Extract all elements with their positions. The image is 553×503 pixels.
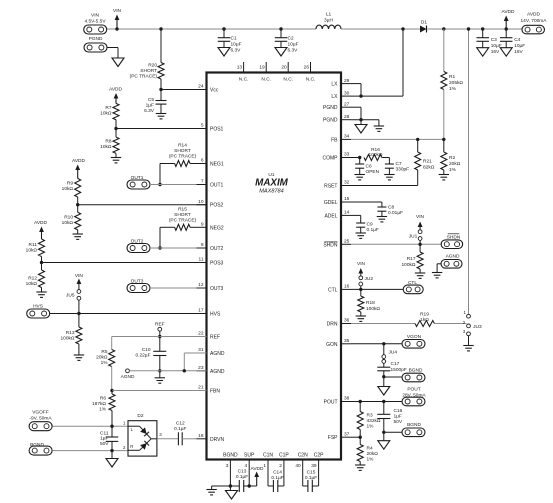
svg-text:100kΩ: 100kΩ (61, 336, 75, 342)
svg-text:R15: R15 (178, 207, 187, 213)
svg-text:VIN: VIN (91, 13, 100, 19)
svg-text:R13: R13 (66, 330, 75, 336)
svg-text:37: 37 (344, 431, 350, 437)
svg-text:FSP: FSP (328, 435, 338, 441)
svg-text:(PC TRACE): (PC TRACE) (130, 74, 158, 80)
svg-text:100kΩ: 100kΩ (402, 262, 416, 268)
svg-text:0.22µF: 0.22µF (135, 352, 150, 358)
svg-text:23: 23 (198, 365, 204, 371)
svg-text:18: 18 (198, 433, 204, 439)
svg-text:40: 40 (295, 463, 301, 469)
svg-text:C9: C9 (367, 222, 373, 228)
svg-text:AVDD: AVDD (502, 9, 516, 15)
svg-text:3: 3 (226, 463, 229, 469)
svg-text:38: 38 (344, 396, 350, 402)
svg-text:JU3: JU3 (473, 324, 482, 330)
svg-text:12: 12 (198, 282, 204, 288)
svg-text:1500pF: 1500pF (391, 367, 407, 373)
svg-text:SHORT: SHORT (140, 68, 157, 74)
svg-text:PGND: PGND (323, 118, 338, 124)
svg-text:100kΩ: 100kΩ (366, 306, 380, 312)
svg-text:C17: C17 (391, 361, 400, 367)
svg-text:6.3V: 6.3V (231, 48, 242, 54)
svg-text:82kΩ: 82kΩ (423, 165, 435, 171)
svg-text:16: 16 (344, 284, 350, 290)
svg-text:C6: C6 (366, 164, 372, 170)
svg-text:Vcc: Vcc (210, 88, 219, 94)
svg-text:R2: R2 (449, 155, 455, 161)
svg-text:1%: 1% (449, 86, 457, 92)
svg-text:3µH: 3µH (324, 18, 333, 24)
svg-text:MAX8784: MAX8784 (259, 189, 284, 195)
svg-text:NEG2: NEG2 (210, 225, 224, 231)
svg-text:2: 2 (279, 463, 282, 469)
svg-text:33: 33 (344, 152, 350, 158)
svg-text:C8: C8 (388, 205, 394, 211)
svg-text:SHORT: SHORT (174, 148, 191, 154)
svg-text:20kΩ: 20kΩ (449, 161, 461, 167)
svg-text:6.3V: 6.3V (288, 48, 299, 54)
svg-text:187kΩ: 187kΩ (92, 401, 106, 407)
svg-text:AVDD: AVDD (72, 158, 86, 164)
svg-text:20kΩ: 20kΩ (367, 451, 379, 457)
svg-text:R7: R7 (105, 105, 111, 111)
svg-text:BGND: BGND (409, 368, 423, 374)
svg-text:VIN: VIN (416, 214, 425, 220)
svg-text:10: 10 (198, 199, 204, 205)
svg-text:OUT2: OUT2 (131, 239, 144, 245)
svg-text:C5: C5 (148, 97, 154, 103)
svg-text:VIN: VIN (75, 273, 84, 279)
svg-text:OUT1: OUT1 (131, 175, 144, 181)
svg-text:LX: LX (331, 82, 338, 88)
svg-text:10kΩ: 10kΩ (62, 186, 74, 192)
svg-text:R5: R5 (101, 349, 107, 355)
svg-text:0.1µF: 0.1µF (174, 426, 186, 432)
svg-text:FB: FB (331, 137, 338, 143)
svg-text:R11: R11 (29, 242, 38, 248)
svg-text:C2P: C2P (314, 453, 324, 459)
svg-text:N.C.: N.C. (261, 77, 271, 83)
svg-text:29: 29 (344, 78, 350, 84)
svg-text:C2: C2 (288, 36, 294, 42)
svg-text:R: R (130, 444, 133, 449)
svg-text:25: 25 (344, 239, 350, 245)
svg-text:50V: 50V (394, 419, 403, 425)
svg-text:28: 28 (344, 114, 350, 120)
svg-text:N.C.: N.C. (239, 77, 249, 83)
svg-text:AVDD: AVDD (527, 12, 541, 18)
svg-text:0.1µF: 0.1µF (305, 475, 317, 481)
svg-text:C12: C12 (176, 421, 185, 427)
svg-text:PGND: PGND (89, 36, 103, 42)
svg-text:9: 9 (201, 222, 204, 228)
svg-text:R14: R14 (178, 143, 187, 149)
svg-text:19: 19 (259, 65, 265, 71)
svg-text:VIN: VIN (357, 261, 366, 267)
svg-text:POS3: POS3 (210, 261, 224, 267)
svg-text:C1P: C1P (279, 453, 289, 459)
svg-text:C10: C10 (142, 347, 151, 353)
svg-text:C11: C11 (100, 430, 109, 436)
svg-text:D1: D1 (421, 20, 427, 26)
svg-text:AVDD: AVDD (34, 220, 48, 226)
svg-text:SHDN: SHDN (447, 235, 461, 241)
svg-text:26: 26 (304, 65, 310, 71)
svg-text:C1N: C1N (263, 453, 273, 459)
svg-text:1%: 1% (101, 360, 109, 366)
svg-text:0.01µF: 0.01µF (388, 210, 403, 216)
svg-text:POUT: POUT (324, 400, 338, 406)
svg-text:C3: C3 (491, 37, 497, 43)
svg-text:BGND: BGND (407, 422, 421, 428)
svg-text:32: 32 (344, 180, 350, 186)
svg-text:1%: 1% (99, 406, 107, 412)
svg-text:10kΩ: 10kΩ (62, 220, 74, 226)
svg-text:OUT1: OUT1 (210, 183, 224, 189)
svg-text:34: 34 (344, 134, 350, 140)
svg-text:10kΩ: 10kΩ (100, 110, 112, 116)
svg-text:10kΩ: 10kΩ (100, 144, 112, 150)
svg-text:N.C.: N.C. (283, 77, 293, 83)
svg-text:R6: R6 (100, 395, 106, 401)
svg-text:POS2: POS2 (210, 203, 224, 209)
svg-text:50V: 50V (100, 441, 109, 447)
svg-text:BGND: BGND (30, 442, 44, 448)
svg-text:0.1µF: 0.1µF (236, 474, 248, 480)
svg-text:SUP: SUP (244, 453, 255, 459)
svg-text:39: 39 (311, 463, 317, 469)
svg-text:NEG1: NEG1 (210, 162, 224, 168)
svg-text:R12: R12 (28, 276, 37, 282)
svg-text:MAXIM: MAXIM (255, 178, 288, 189)
svg-text:DRN: DRN (327, 322, 338, 328)
svg-text:1µF: 1µF (146, 103, 154, 109)
svg-text:AGND: AGND (121, 374, 135, 380)
svg-text:BGND: BGND (223, 453, 238, 459)
svg-text:20: 20 (281, 65, 287, 71)
svg-text:JU4: JU4 (389, 350, 398, 356)
svg-text:R8: R8 (105, 139, 111, 145)
svg-text:OUT3: OUT3 (210, 286, 224, 292)
svg-text:205kΩ: 205kΩ (449, 80, 463, 86)
svg-text:100kΩ: 100kΩ (369, 152, 383, 158)
svg-text:HVS: HVS (210, 312, 221, 318)
svg-text:0.1µF: 0.1µF (367, 227, 379, 233)
svg-text:15: 15 (344, 196, 350, 202)
svg-text:GON: GON (326, 342, 338, 348)
svg-text:28V, 50mA: 28V, 50mA (402, 392, 426, 398)
svg-text:VIN: VIN (113, 8, 122, 14)
svg-text:27: 27 (344, 101, 350, 107)
svg-text:R10: R10 (64, 214, 73, 220)
svg-text:R18: R18 (366, 300, 375, 306)
svg-text:C4: C4 (514, 37, 520, 43)
svg-text:AVDD: AVDD (251, 466, 265, 472)
svg-text:R9: R9 (67, 180, 73, 186)
svg-text:C16: C16 (394, 408, 403, 414)
svg-text:24: 24 (198, 84, 204, 90)
svg-text:11: 11 (199, 257, 204, 263)
svg-text:R17: R17 (407, 256, 416, 262)
svg-text:6: 6 (201, 158, 204, 164)
svg-text:1%: 1% (367, 457, 375, 463)
svg-text:FBN: FBN (210, 389, 220, 395)
svg-text:21: 21 (198, 385, 204, 391)
svg-text:36: 36 (344, 318, 350, 324)
svg-text:1%: 1% (367, 424, 375, 430)
svg-text:16V: 16V (514, 49, 523, 55)
svg-text:31: 31 (198, 347, 204, 353)
svg-text:22: 22 (198, 331, 204, 337)
svg-text:PGND: PGND (323, 105, 338, 111)
svg-text:POUT: POUT (407, 387, 420, 393)
svg-text:1%: 1% (449, 167, 457, 173)
svg-text:AVDD: AVDD (109, 87, 123, 93)
svg-text:C2N: C2N (298, 453, 308, 459)
svg-text:L1: L1 (326, 12, 332, 18)
svg-text:10kΩ: 10kΩ (26, 281, 38, 287)
svg-text:C15: C15 (307, 470, 316, 476)
svg-text:D2: D2 (137, 413, 143, 419)
svg-text:AGND: AGND (446, 254, 460, 260)
svg-text:DRVN: DRVN (210, 437, 224, 443)
svg-text:N.C.: N.C. (306, 77, 316, 83)
svg-text:R19: R19 (420, 312, 429, 318)
svg-text:AGND: AGND (210, 369, 225, 375)
svg-text:35: 35 (344, 338, 350, 344)
svg-text:13: 13 (237, 65, 243, 71)
svg-text:C1: C1 (231, 36, 237, 42)
svg-text:REF: REF (210, 335, 220, 341)
svg-text:330pF: 330pF (396, 167, 410, 173)
svg-text:10µF: 10µF (514, 43, 525, 49)
svg-text:LX: LX (331, 94, 338, 100)
svg-text:(PC TRACE): (PC TRACE) (169, 218, 197, 224)
svg-text:REF: REF (155, 322, 165, 328)
svg-text:10µF: 10µF (288, 42, 299, 48)
svg-text:C7: C7 (396, 161, 402, 167)
svg-text:SHORT: SHORT (174, 212, 191, 218)
svg-text:OUT3: OUT3 (131, 279, 144, 285)
svg-text:CTL: CTL (408, 280, 417, 286)
svg-text:8: 8 (201, 242, 204, 248)
svg-text:14V, 700mA: 14V, 700mA (521, 18, 548, 24)
svg-text:10µF: 10µF (231, 42, 242, 48)
svg-text:SHDN: SHDN (323, 242, 338, 248)
svg-text:AGND: AGND (210, 351, 225, 357)
svg-text:(PC TRACE): (PC TRACE) (169, 154, 197, 160)
svg-text:VGOFF: VGOFF (32, 410, 49, 416)
svg-text:VGON: VGON (407, 334, 422, 340)
svg-text:30: 30 (344, 90, 350, 96)
svg-text:OUT2: OUT2 (210, 246, 224, 252)
svg-text:16V: 16V (491, 49, 500, 55)
svg-text:OPEN: OPEN (366, 169, 380, 175)
svg-text:JU2: JU2 (365, 276, 374, 282)
svg-text:14: 14 (344, 210, 350, 216)
svg-text:R3: R3 (367, 413, 373, 419)
svg-text:20kΩ: 20kΩ (96, 354, 108, 360)
svg-text:COMP: COMP (323, 156, 339, 162)
svg-text:6.3V: 6.3V (144, 108, 155, 114)
svg-text:1µF: 1µF (394, 414, 402, 420)
svg-text:-9V, 50mA: -9V, 50mA (29, 416, 52, 422)
svg-text:R20: R20 (148, 63, 157, 69)
svg-text:5: 5 (201, 123, 204, 129)
svg-text:HVS: HVS (33, 304, 43, 310)
svg-text:JU5: JU5 (66, 293, 75, 299)
svg-text:4.5V-5.5V: 4.5V-5.5V (84, 19, 106, 25)
svg-text:1kΩ: 1kΩ (420, 317, 429, 323)
svg-text:JU1: JU1 (409, 234, 418, 240)
svg-text:10kΩ: 10kΩ (26, 248, 38, 254)
svg-text:CTL: CTL (328, 287, 338, 293)
svg-text:C13: C13 (238, 469, 247, 475)
svg-text:R21: R21 (423, 159, 432, 165)
svg-text:POS1: POS1 (210, 127, 224, 133)
svg-text:4: 4 (245, 463, 248, 469)
svg-text:ADEL: ADEL (324, 213, 337, 219)
svg-text:GDEL: GDEL (324, 200, 338, 206)
svg-text:RSET: RSET (324, 184, 337, 190)
svg-text:R1: R1 (449, 74, 455, 80)
svg-text:17: 17 (198, 308, 204, 314)
svg-text:C14: C14 (273, 470, 282, 476)
svg-text:R4: R4 (367, 446, 373, 452)
svg-text:1: 1 (263, 463, 266, 469)
svg-text:0.1µF: 0.1µF (271, 475, 283, 481)
svg-text:7: 7 (201, 179, 204, 185)
svg-text:1µF: 1µF (100, 436, 108, 442)
